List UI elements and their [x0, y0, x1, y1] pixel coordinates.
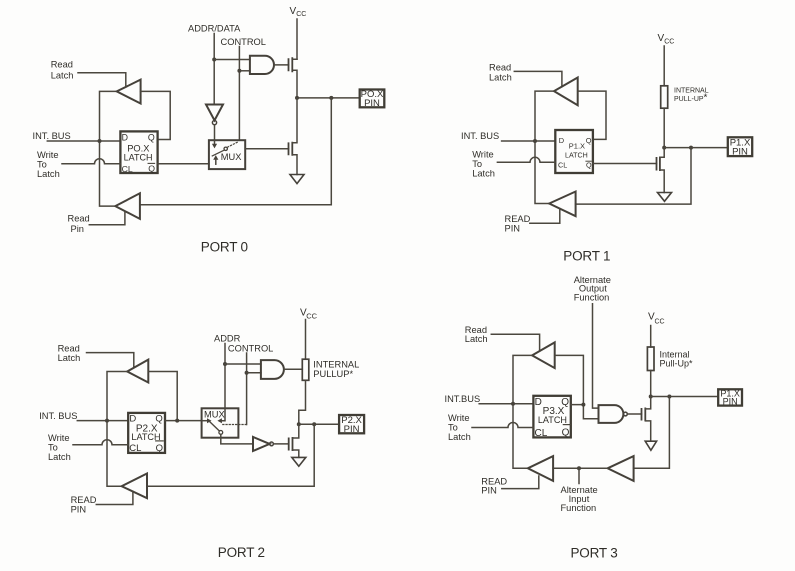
resistor internal pull-up: [647, 347, 654, 371]
node drain/pin: [297, 422, 301, 426]
resistor internal pullup: [302, 359, 309, 380]
node alternate input tap: [577, 466, 581, 470]
svg-text:Latch: Latch: [465, 334, 488, 344]
wire left vertical bus: [513, 355, 532, 468]
wire read-latch leader: [87, 353, 134, 368]
mux internals: [203, 408, 247, 434]
wire read-pin leader: [502, 476, 539, 489]
wire VCC: [296, 19, 298, 59]
node on ADDR/DATA line: [212, 58, 216, 62]
wire write-to-latch with hop: [73, 440, 128, 445]
svg-text:Q: Q: [562, 428, 570, 439]
node INT.BUS: [533, 139, 537, 143]
buffer read-latch: [127, 360, 148, 383]
svg-text:Read: Read: [489, 63, 511, 73]
svg-text:Function: Function: [574, 292, 610, 302]
svg-text:READ: READ: [505, 214, 531, 224]
svg-text:CL: CL: [558, 161, 567, 170]
wire read-latch leader: [78, 73, 126, 87]
svg-text:LATCH: LATCH: [124, 153, 153, 163]
wire read-pin leader: [530, 209, 560, 224]
pin box P1.X PIN: [728, 137, 752, 157]
transistor Q5 output FET: [642, 397, 651, 442]
node resistor/drain: [649, 395, 653, 399]
gate NAND: [599, 405, 642, 423]
wire write-to-latch with hop: [497, 157, 555, 162]
svg-text:Read: Read: [68, 213, 90, 223]
svg-text:To: To: [37, 159, 47, 169]
svg-text:PIN: PIN: [344, 424, 360, 435]
svg-text:PIN: PIN: [481, 485, 497, 495]
svg-text:PORT 3: PORT 3: [571, 546, 618, 561]
svg-text:PULL-UP: PULL-UP: [674, 96, 704, 103]
svg-text:CC: CC: [664, 38, 674, 45]
svg-text:Write: Write: [472, 150, 494, 160]
wire read-latch leader: [491, 334, 539, 351]
wire CONTROL vertical: [246, 353, 248, 425]
wire latch Q to NAND: [571, 405, 599, 419]
svg-text:INTERNAL: INTERNAL: [313, 359, 359, 369]
svg-text:Latch: Latch: [48, 452, 71, 462]
svg-text:CONTROL: CONTROL: [221, 37, 266, 47]
svg-text:MUX: MUX: [221, 152, 242, 162]
wire to AND bottom input: [247, 372, 261, 374]
wire to P1.X PIN box: [664, 147, 728, 149]
wire left vertical bus: [100, 91, 117, 206]
svg-text:Latch: Latch: [37, 169, 60, 179]
wire left vertical bus: [107, 372, 127, 487]
node feedback tap: [312, 422, 316, 426]
wire AND output to resistor: [284, 368, 302, 370]
svg-text:INT.BUS: INT.BUS: [445, 394, 481, 404]
mux MUX box: [209, 140, 245, 169]
wire INT.BUS: [479, 403, 533, 405]
wire alternate output vertical: [593, 304, 599, 408]
wire resistor to pin node: [650, 371, 652, 397]
resistor internal pull-up: [661, 86, 668, 108]
svg-text:CL: CL: [129, 443, 141, 454]
wire read-latch leader: [514, 71, 562, 86]
wire ADDR/DATA vertical: [213, 34, 215, 105]
svg-text:Latch: Latch: [448, 432, 471, 442]
pin box PO.X PIN: [360, 89, 385, 109]
buffer read-pin: [115, 193, 140, 219]
node on CONTROL line: [245, 371, 249, 375]
buffer alternate input: [608, 456, 634, 481]
svg-text:Q: Q: [148, 133, 155, 143]
wire to P2.X PIN box: [299, 423, 339, 425]
node drain/pin: [295, 96, 299, 100]
svg-text:PORT 1: PORT 1: [563, 249, 610, 264]
svg-text:PORT 2: PORT 2: [218, 545, 265, 560]
svg-text:Read: Read: [51, 59, 73, 69]
ground: [290, 175, 304, 184]
svg-text:P1.X: P1.X: [569, 142, 585, 151]
node feedback tap: [689, 146, 693, 150]
wire read-latch base to Q node: [148, 372, 177, 421]
svg-text:To: To: [48, 443, 58, 453]
wire resistor to pin node: [663, 108, 665, 147]
svg-text:PIN: PIN: [505, 223, 521, 233]
wire VCC: [663, 46, 665, 86]
wire feedback pin to read-pin buffer: [147, 424, 314, 486]
wire to AND bottom input: [239, 70, 250, 72]
node resistor/drain: [662, 146, 666, 150]
wire VCC: [650, 326, 652, 348]
mux MUX box: [202, 408, 239, 437]
wire read-latch base to latch Q: [141, 91, 171, 139]
wire write-to-latch with hop: [472, 423, 533, 428]
wire read-latch base to Q node: [555, 355, 584, 404]
buffer read-latch: [532, 342, 555, 368]
svg-text:Q: Q: [156, 443, 163, 454]
svg-text:PIN: PIN: [732, 146, 748, 157]
svg-text:To: To: [448, 423, 458, 433]
wire MUX switch output to inverter: [221, 434, 253, 444]
svg-text:LATCH: LATCH: [565, 152, 588, 160]
svg-text:Pull-Up*: Pull-Up*: [660, 359, 694, 369]
svg-text:LATCH: LATCH: [538, 415, 567, 425]
latch P3.X LATCH: [533, 396, 570, 439]
wire between buffers: [553, 467, 608, 469]
wire feedback pin to input buffer: [634, 397, 670, 469]
wire INT.BUS: [502, 140, 556, 142]
buffer read-pin: [528, 456, 553, 481]
svg-text:Latch: Latch: [472, 169, 495, 179]
wire alternate input leader: [578, 468, 580, 483]
svg-text:Function: Function: [561, 503, 597, 513]
wire latch Qbar to MUX: [158, 163, 209, 165]
node INT.BUS: [511, 402, 515, 406]
svg-text:D: D: [559, 136, 564, 145]
latch PO.X LATCH: [120, 131, 157, 173]
node on ADDR line: [223, 362, 227, 366]
svg-text:INT. BUS: INT. BUS: [39, 411, 77, 421]
wire read-pin leader: [96, 492, 133, 505]
pin box P2.X PIN: [339, 415, 364, 435]
svg-text:PORT 0: PORT 0: [201, 239, 248, 254]
buffer read-latch: [117, 80, 141, 104]
svg-text:CONTROL: CONTROL: [228, 343, 273, 353]
node INT.BUS: [105, 419, 109, 423]
svg-text:Q: Q: [586, 136, 592, 145]
node INT.BUS / left vertical: [98, 139, 102, 143]
svg-text:MUX: MUX: [204, 410, 225, 420]
wire resistor to pin node with jog: [299, 380, 306, 424]
svg-text:Latch: Latch: [51, 71, 74, 81]
wire write-to-latch with hop: [62, 159, 120, 164]
node Q: [581, 403, 585, 407]
wire CONTROL vertical: [238, 47, 240, 141]
wire MUX output to lower FET gate: [245, 148, 288, 150]
svg-text:Pin: Pin: [71, 224, 84, 234]
wire INT.BUS: [77, 420, 128, 422]
svg-text:D: D: [122, 133, 128, 143]
pin box P1.X PIN: [718, 388, 742, 406]
wire read-pin leader: [89, 212, 125, 225]
wire latch Q to MUX: [165, 420, 202, 422]
svg-text:INT. BUS: INT. BUS: [33, 131, 71, 141]
mux internals: [212, 140, 242, 164]
svg-text:CL: CL: [122, 164, 133, 174]
svg-text:Write: Write: [448, 413, 470, 423]
node on CONTROL line: [237, 69, 241, 73]
svg-text:CC: CC: [306, 312, 317, 321]
buffer read-pin: [549, 192, 575, 217]
svg-text:Latch: Latch: [489, 73, 512, 83]
svg-text:CL: CL: [535, 428, 548, 439]
svg-text:Q: Q: [148, 164, 155, 174]
wire to AND top input: [214, 59, 250, 61]
svg-text:ADDR: ADDR: [214, 333, 241, 343]
wire left vertical bus: [535, 91, 554, 203]
buffer read-latch: [554, 78, 578, 106]
ground: [292, 457, 306, 466]
svg-text:To: To: [472, 159, 482, 169]
latch P1.X LATCH: [555, 130, 593, 173]
wire AND output to transistor gate: [274, 64, 289, 66]
wire ADDR vertical: [224, 344, 226, 409]
wire to AND top input: [225, 363, 261, 365]
wire INT.BUS: [47, 140, 120, 142]
svg-text:READ: READ: [71, 495, 97, 505]
ground: [645, 441, 656, 450]
transistor Q2 pull-down FET: [289, 98, 298, 175]
svg-text:PIN: PIN: [71, 505, 87, 515]
AND gate: [250, 56, 274, 74]
ground: [658, 193, 672, 202]
svg-text:PIN: PIN: [723, 397, 738, 407]
wire to P1.X PIN box: [651, 396, 719, 398]
inverter on ADDR/DATA: [206, 105, 223, 141]
wire pin node to PO.X PIN box: [297, 97, 360, 99]
transistor Q3 output FET: [593, 148, 664, 193]
svg-text:PULLUP*: PULLUP*: [313, 369, 353, 379]
latch P2.X LATCH: [128, 413, 165, 454]
AND gate: [261, 360, 284, 379]
wire VCC: [305, 320, 307, 360]
svg-text:*: *: [704, 93, 708, 104]
inverter: [253, 437, 289, 451]
svg-text:Write: Write: [37, 150, 59, 160]
svg-text:CC: CC: [655, 318, 665, 325]
wire read-latch base to latch Q: [578, 91, 606, 139]
transistor Q4 output FET: [289, 424, 299, 457]
node feedback tap: [667, 395, 671, 399]
buffer read-pin: [122, 474, 147, 499]
svg-text:D: D: [535, 397, 542, 408]
svg-text:CC: CC: [296, 11, 306, 18]
wire feedback from pin down to read-pin buffer: [140, 98, 331, 205]
transistor Q1 pull-up FET: [289, 57, 298, 98]
svg-text:INT. BUS: INT. BUS: [461, 131, 499, 141]
svg-text:ADDR/DATA: ADDR/DATA: [188, 24, 241, 34]
svg-text:PIN: PIN: [364, 98, 380, 109]
node feedback tap: [329, 96, 333, 100]
wire feedback pin to read-pin buffer: [576, 148, 691, 205]
svg-text:Write: Write: [48, 433, 70, 443]
svg-text:LATCH: LATCH: [131, 432, 160, 442]
svg-text:Q: Q: [586, 160, 592, 169]
svg-text:Latch: Latch: [58, 353, 81, 363]
node Q / read-latch tap: [175, 419, 179, 423]
